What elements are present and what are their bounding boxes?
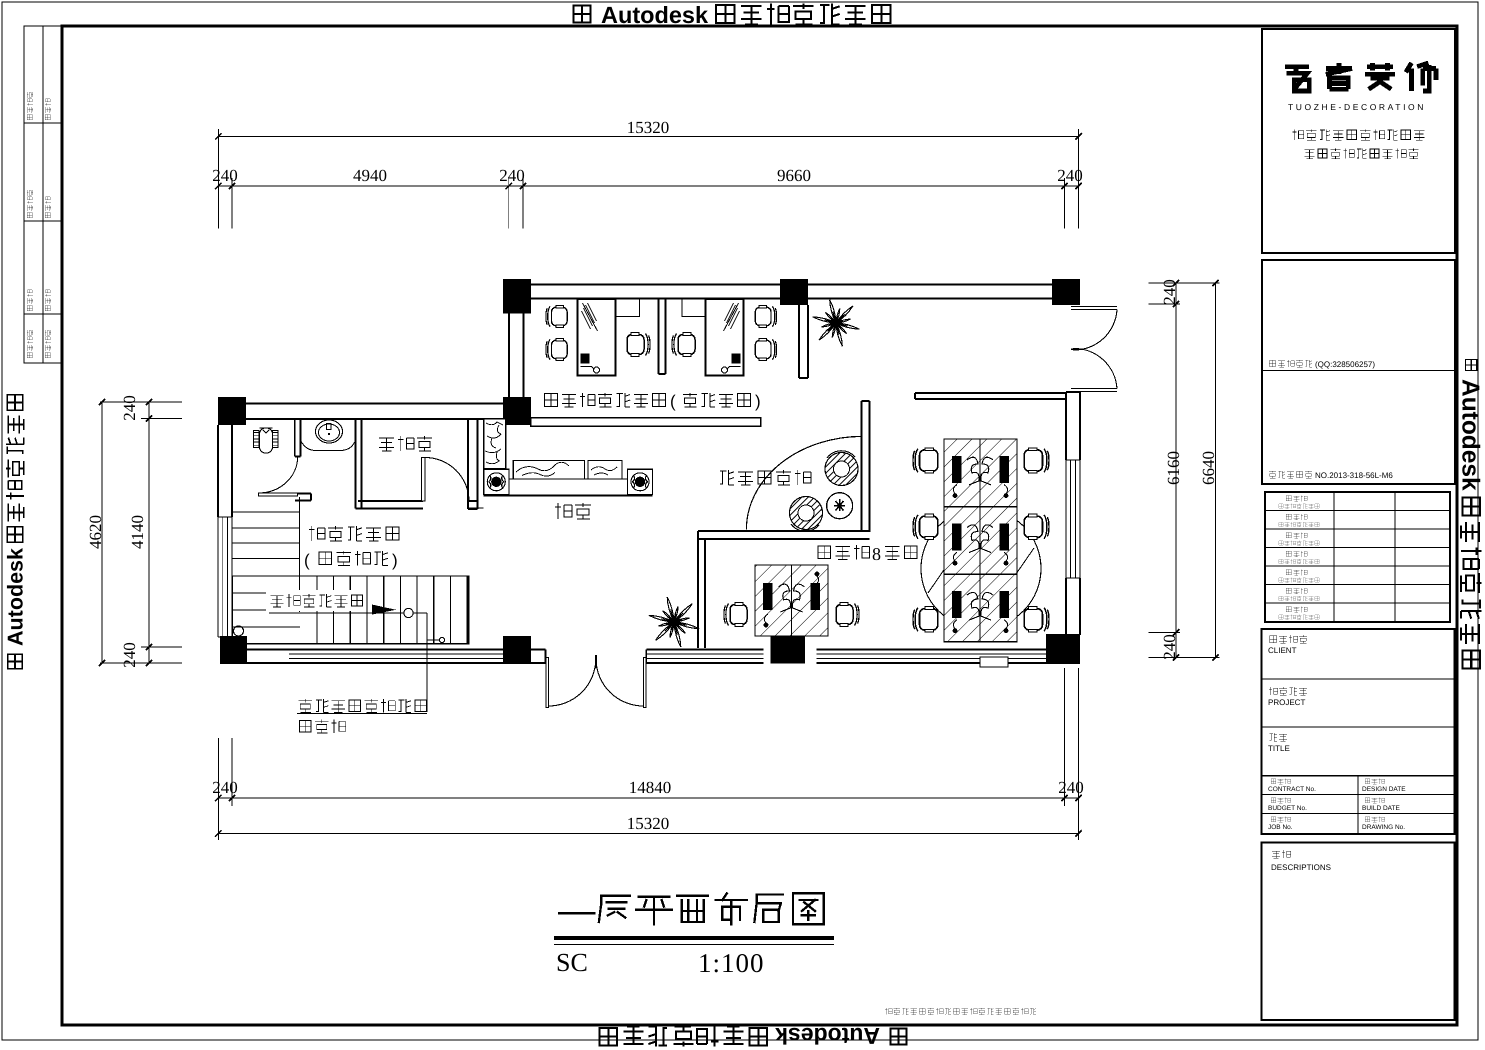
- wall: office left vertical: [697, 531, 699, 648]
- wall: rest-area horizontal: [698, 530, 870, 532]
- svg-text:4940: 4940: [353, 166, 387, 185]
- wall: rest-area vertical: [861, 401, 863, 532]
- left revision strip: [24, 26, 62, 363]
- wall: upper room left: [508, 313, 510, 397]
- svg-text:6160: 6160: [1164, 451, 1183, 485]
- svg-text:240: 240: [1160, 634, 1179, 660]
- director room A desk: [578, 299, 616, 376]
- logo TUOZHE decoration (heavy strokes): [1285, 67, 1309, 91]
- reception counter base: [509, 479, 628, 495]
- left block chairs: [724, 603, 747, 627]
- svg-text:): ): [755, 392, 761, 411]
- wall: upper room top (between columns): [531, 284, 780, 286]
- label: storage room: [379, 436, 432, 451]
- dimension: left 240/4140/240 line: [148, 402, 150, 663]
- director room B guest chair: [672, 333, 695, 357]
- director room B desk: [706, 299, 744, 376]
- svg-text:240: 240: [212, 778, 238, 797]
- wash basin: [301, 441, 356, 451]
- storage wall foot connector: [469, 507, 484, 509]
- bottom wall with window bands: [246, 649, 503, 651]
- toilet fixture: [254, 431, 260, 448]
- svg-text:Autodesk: Autodesk: [4, 548, 28, 646]
- svg-text:240: 240: [499, 166, 525, 185]
- svg-text:15320: 15320: [627, 118, 670, 137]
- structural columns (filled): [503, 279, 531, 314]
- label: client rest area: [720, 470, 811, 485]
- svg-text:DESCRIPTIONS: DESCRIPTIONS: [1271, 863, 1331, 872]
- right block chairs: [913, 448, 938, 473]
- dimension: bottom 15320 line: [218, 833, 1078, 835]
- svg-text:DESIGN DATE: DESIGN DATE: [1362, 786, 1406, 793]
- stairs direction arrow: [372, 605, 396, 615]
- wall: left wing top: [246, 403, 503, 405]
- dimension extension lines (right): [1149, 282, 1220, 284]
- svg-text:14840: 14840: [629, 778, 672, 797]
- wall: left outer: [217, 425, 219, 517]
- toilet bottom wall stub: [298, 493, 311, 495]
- rest area small table: [827, 493, 853, 519]
- storage right wall: [467, 419, 469, 509]
- hatched pier next to column C5: [484, 419, 506, 469]
- svg-text:Autodesk: Autodesk: [601, 2, 709, 28]
- svg-text:8: 8: [872, 544, 881, 564]
- svg-text:): ): [392, 551, 398, 570]
- reception half-height wall bar: [531, 418, 761, 427]
- dimension: top 240/4940/240/9660/240 line: [218, 185, 1078, 187]
- round rug circle right group: [921, 509, 1041, 629]
- svg-text:9660: 9660: [777, 166, 811, 185]
- wall: right outer: [1065, 392, 1067, 460]
- stairs main rectangle: [233, 576, 469, 644]
- reception counter panels: [513, 460, 584, 479]
- label: front desk: [555, 503, 591, 519]
- dimension extension lines (top): [217, 129, 219, 229]
- right workstation block (6 cells): [944, 439, 980, 507]
- director room B chairs: [755, 306, 776, 328]
- plant bottom: [649, 597, 699, 647]
- svg-text:240: 240: [120, 642, 139, 668]
- svg-text:CONTRACT No.: CONTRACT No.: [1268, 786, 1316, 793]
- wall: stub below column C2: [798, 305, 800, 378]
- rest area hatched stool 1: [825, 453, 858, 486]
- window: left wall 4-line band: [217, 517, 219, 637]
- watermark top: Autodesk education banner: [574, 2, 891, 28]
- svg-text:JOB No.: JOB No.: [1268, 824, 1293, 831]
- stairs lower-left treads: [233, 592, 301, 594]
- reception desk base line: [484, 494, 653, 496]
- director room A side table: [616, 299, 640, 317]
- svg-text:TUOZHE-DECORATION: TUOZHE-DECORATION: [1288, 102, 1426, 112]
- svg-text:4620: 4620: [86, 515, 105, 549]
- title block: logo box: [1262, 29, 1455, 253]
- title block: box4 client box: [1262, 629, 1455, 834]
- svg-text:Autodesk: Autodesk: [1456, 379, 1483, 491]
- dimension: top 15320 line: [218, 135, 1078, 137]
- director room B side table: [682, 299, 706, 317]
- sink/storage partition wall: [355, 419, 357, 509]
- dimension: right 6640 line: [1215, 283, 1217, 658]
- reception flower box left: [484, 469, 509, 494]
- label: design director rooms: [545, 393, 666, 407]
- wall: upper horizontal x915-1066: [915, 392, 1066, 394]
- door: storage: [425, 458, 469, 502]
- note: sewage line1: [299, 699, 427, 712]
- rest area hatched stool 2: [790, 497, 823, 530]
- svg-text:6640: 6640: [1199, 451, 1218, 485]
- svg-text:DRAWING No.: DRAWING No.: [1362, 824, 1405, 831]
- stairs upper flight treads: [233, 511, 300, 513]
- watermark right (rotated 90): [1456, 359, 1483, 668]
- label: toilet line1: [309, 526, 399, 541]
- big title: floor plan layout: [559, 912, 594, 914]
- svg-text:PROJECT: PROJECT: [1268, 698, 1305, 707]
- window: right wall 4-line band: [1065, 460, 1067, 578]
- door: bottom entrance (double): [546, 657, 549, 707]
- partition between director rooms: [658, 299, 660, 375]
- bottom wall recess: [980, 657, 1008, 667]
- title block: box5 notes: [1262, 843, 1455, 1021]
- dimension extension lines (bottom): [217, 738, 219, 840]
- rest area curved partition: [746, 436, 862, 529]
- left workstation block (2 cells): [755, 565, 792, 636]
- stairs leader line + circles: [269, 612, 427, 614]
- svg-text:240: 240: [1058, 778, 1084, 797]
- director room A chairs: [546, 306, 567, 328]
- note: sewage line2: [299, 720, 345, 733]
- stairs treads vertical: [316, 576, 318, 644]
- svg-text:240: 240: [212, 166, 238, 185]
- door: toilet: [259, 457, 298, 493]
- dimension: left 4620 line: [101, 402, 103, 663]
- svg-text:15320: 15320: [627, 814, 670, 833]
- toilet partition wall: [294, 419, 296, 457]
- director room A guest chair: [627, 333, 650, 357]
- label: office area 8 seats: [818, 545, 870, 560]
- reception flower box right: [627, 469, 652, 494]
- svg-text:SC: SC: [556, 948, 588, 977]
- label: existing steel stair: [271, 594, 363, 607]
- svg-text:(: (: [304, 551, 310, 570]
- svg-text:(QQ:328506257): (QQ:328506257): [1315, 360, 1375, 369]
- door: right entrance (double): [1071, 306, 1117, 308]
- svg-text:BUDGET No.: BUDGET No.: [1268, 805, 1307, 812]
- watermark bottom (rotated 180): [600, 1023, 907, 1049]
- dimension extension lines (left): [100, 401, 182, 403]
- title block: box3 signature table: [1265, 492, 1450, 622]
- slogan lines: [1292, 129, 1424, 140]
- tiny watermark bottom right of plan: [885, 1008, 1036, 1015]
- dimension: right 240/6160/240 line: [1175, 283, 1177, 658]
- svg-text:NO.2013-318-56L-M6: NO.2013-318-56L-M6: [1315, 471, 1393, 480]
- title block: box2 project info: [1262, 260, 1455, 484]
- svg-text:Autodesk: Autodesk: [775, 1023, 880, 1049]
- watermark left (rotated -90): [4, 395, 28, 669]
- stairs label background: [266, 590, 364, 611]
- svg-text:BUILD DATE: BUILD DATE: [1362, 805, 1400, 812]
- svg-text:TITLE: TITLE: [1268, 744, 1290, 753]
- svg-text:1:100: 1:100: [698, 948, 765, 978]
- storage bottom wall: [358, 500, 423, 502]
- svg-text:CLIENT: CLIENT: [1268, 646, 1297, 655]
- plant top: [813, 300, 859, 346]
- dimension: bottom 240/14840/240 line: [218, 797, 1078, 799]
- svg-text:4140: 4140: [128, 515, 147, 549]
- svg-text:240: 240: [120, 395, 139, 421]
- svg-text:(: (: [670, 392, 676, 411]
